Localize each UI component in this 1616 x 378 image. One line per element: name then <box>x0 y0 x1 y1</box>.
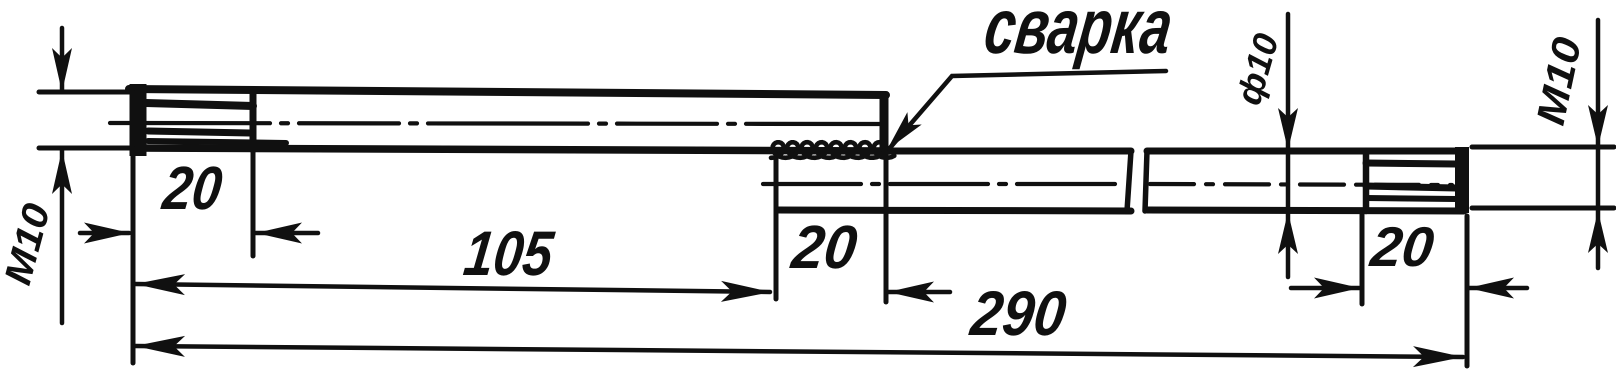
extension line tube right end lower <box>884 155 889 302</box>
dimension 20 left: right arrow <box>256 223 318 244</box>
tube top line <box>129 89 886 95</box>
right thread crest line 2 <box>1366 186 1456 188</box>
extension line rod left end <box>774 155 779 299</box>
M10 left extension top <box>39 90 133 95</box>
rod right end face <box>1455 147 1469 213</box>
right thread boundary <box>1363 151 1370 211</box>
weld leader arrowhead <box>887 112 922 150</box>
extension line left end <box>131 155 136 363</box>
right thread crest line 3 <box>1366 198 1456 199</box>
label сварка <box>980 0 1178 70</box>
left thread crest line 2 <box>148 131 250 133</box>
M10 left extension bottom <box>39 146 133 151</box>
M10 left dimension line lower <box>52 150 72 323</box>
label 290 <box>966 279 1069 349</box>
dimension 20 middle: right arrow <box>888 282 950 303</box>
label 20 left <box>159 154 226 222</box>
rod segment2 break end <box>1145 151 1147 211</box>
svg-text:M10: M10 <box>1529 34 1590 129</box>
rod segment1 break end <box>1127 151 1131 211</box>
dimension 20 right: left arrow <box>1291 278 1360 299</box>
weld leader line <box>889 71 1166 149</box>
rod segment2 top line <box>1147 148 1464 155</box>
M10 right extension bottom <box>1472 206 1614 211</box>
diameter 10 dimension line <box>1278 14 1298 277</box>
dimension 20 left: left arrow <box>80 223 130 244</box>
svg-text:ф10: ф10 <box>1229 29 1286 109</box>
M10 left dimension line upper <box>52 28 72 92</box>
dimension 290 line <box>135 336 1463 367</box>
rod centerline <box>763 184 1452 185</box>
tube right end face <box>880 96 889 150</box>
weld bead <box>771 142 894 158</box>
left thread crest line 3 <box>148 141 286 143</box>
dimension 105 line <box>135 274 771 302</box>
left thread boundary <box>250 92 257 150</box>
svg-text:20: 20 <box>787 213 860 281</box>
rod segment1 top line <box>884 148 1131 155</box>
svg-text:20: 20 <box>159 154 226 222</box>
M10 right dimension line upper <box>1588 20 1608 208</box>
svg-text:290: 290 <box>966 279 1069 349</box>
rod segment1 bottom line <box>777 210 1131 211</box>
M10 right dimension line lower <box>1588 208 1608 268</box>
tube centerline <box>110 123 880 124</box>
label 20 right <box>1367 215 1438 278</box>
svg-text:M10: M10 <box>0 199 59 289</box>
extension line left thread <box>251 153 256 256</box>
left thread crest line 1 <box>146 103 253 106</box>
tube left end face <box>130 84 147 156</box>
label 105 <box>460 219 557 289</box>
svg-text:105: 105 <box>460 219 557 289</box>
svg-text:20: 20 <box>1367 215 1438 278</box>
tube bottom line <box>133 148 890 151</box>
M10 right extension top <box>1472 145 1614 150</box>
right thread crest line 1 <box>1366 163 1456 164</box>
extension line right thread <box>1360 214 1365 304</box>
svg-text:сварка: сварка <box>980 0 1178 70</box>
label 20 middle <box>787 213 860 281</box>
label M10 right <box>1529 34 1590 129</box>
label M10 left <box>0 199 59 289</box>
dimension 20 right: right arrow <box>1468 278 1527 299</box>
label ф10 <box>1229 29 1286 109</box>
rod segment2 bottom line <box>1147 210 1464 211</box>
extension line rod right end <box>1465 216 1470 366</box>
